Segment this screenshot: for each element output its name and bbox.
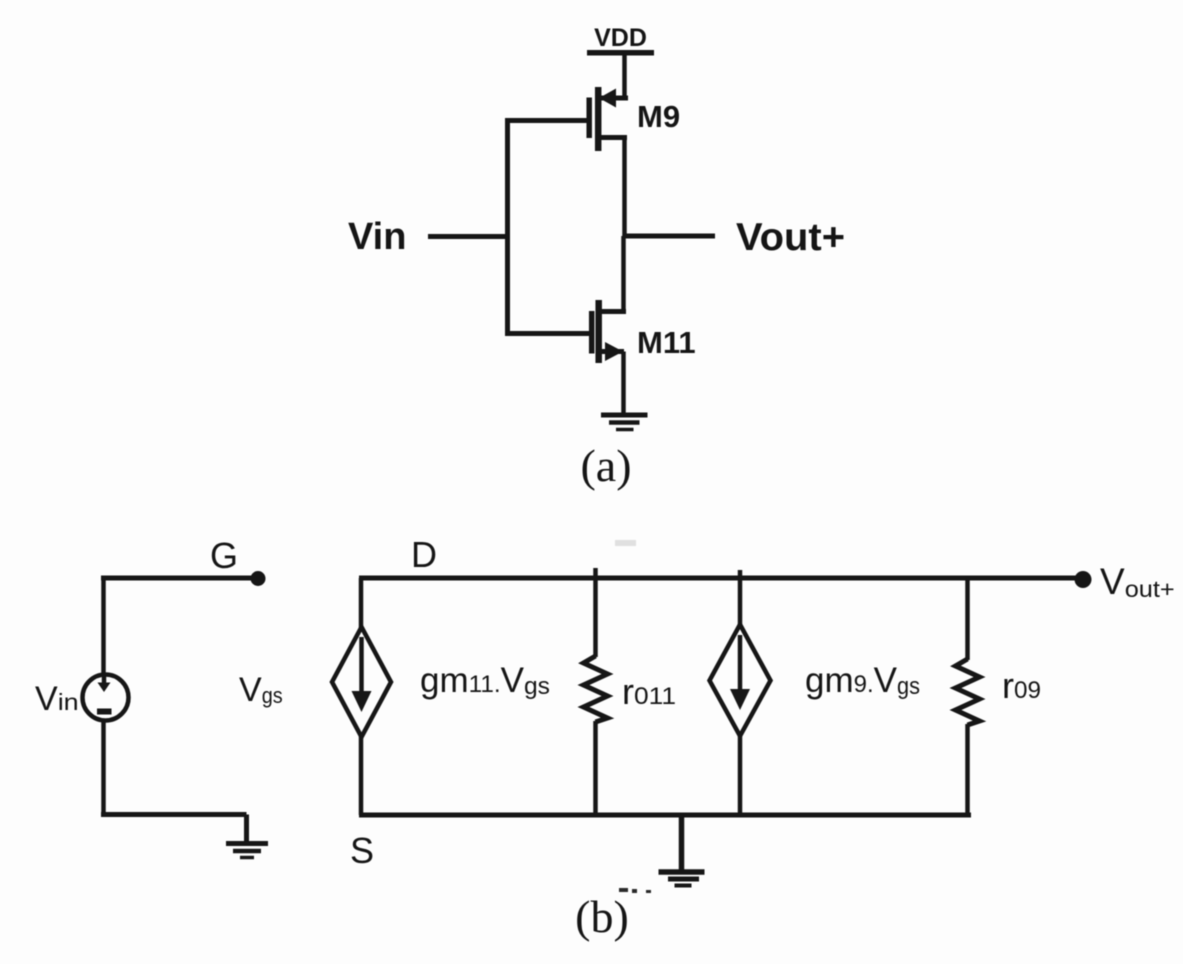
transistor M11 gate wire — [508, 331, 590, 336]
wire r011 top — [593, 578, 598, 657]
resistor r09 zigzag — [956, 659, 980, 725]
ground (b) bar 3 — [675, 884, 692, 888]
svg-text:gm9.Vgs: gm9.Vgs — [805, 661, 920, 700]
current source gm11 diamond — [332, 627, 391, 737]
transistor M9 gate bar — [586, 98, 592, 139]
resistor r011 zigzag — [584, 656, 608, 722]
current source gm9 diamond — [710, 625, 771, 737]
wire Vin top horizontal — [101, 576, 252, 581]
transistor M11 gate bar — [589, 311, 595, 354]
transistor M11 source line — [602, 349, 625, 354]
svg-text:D: D — [411, 534, 437, 575]
transistor M11 drain line — [602, 309, 627, 314]
transistor M9 drain line — [601, 135, 627, 140]
transistor M9 source line — [601, 96, 628, 101]
ground (b left) bar 3 — [240, 856, 254, 860]
wire r011 bottom — [593, 721, 598, 815]
wire M11 source to ground — [621, 352, 626, 415]
svg-text:r011: r011 — [622, 671, 676, 712]
svg-text:(a): (a) — [580, 440, 631, 491]
ground (b) bar 2 — [668, 877, 699, 882]
svg-text:(b): (b) — [575, 891, 629, 942]
wire top rail D — [359, 576, 1080, 581]
wire Vin bottom vertical — [101, 719, 106, 815]
wire output to Vout+ — [625, 234, 716, 239]
ground (a) bar 3 — [616, 428, 634, 432]
transistor M9 gate wire — [505, 118, 587, 123]
wire Vin top vertical — [101, 578, 106, 676]
ground (a) bar 1 — [601, 413, 648, 418]
ground (b) bar 1 — [659, 869, 705, 875]
wire VDD to M9 source — [622, 55, 627, 98]
wire r09 top — [965, 578, 970, 660]
ground (b left) bar 1 — [226, 841, 268, 846]
wire gm9 branch top — [738, 578, 743, 626]
artifact dots — [619, 888, 651, 893]
wire bottom rail S — [359, 813, 971, 818]
svg-text:Vout+: Vout+ — [1100, 561, 1175, 602]
wire M9 drain down to output node — [622, 138, 627, 239]
artifact smudge — [615, 540, 636, 546]
node Vout+ dot — [1075, 571, 1092, 588]
svg-text:gm11.Vgs: gm11.Vgs — [420, 661, 550, 700]
source Vin circle — [83, 675, 129, 721]
ground (a) bar 2 — [609, 420, 640, 425]
wire gm9 stub above rail — [738, 570, 743, 578]
transistor M9 source arrow — [599, 89, 616, 108]
svg-text:G: G — [210, 535, 238, 576]
current source gm11 arrow — [359, 637, 364, 700]
current source gm9 arrow — [738, 635, 743, 698]
transistor M11 channel bar — [595, 300, 602, 363]
transistor M11 source arrow — [605, 342, 623, 361]
wire gm11 branch bottom — [359, 736, 364, 815]
svg-text:Vout+: Vout+ — [736, 216, 845, 259]
wire gate branch vertical — [505, 118, 510, 336]
svg-text:S: S — [350, 830, 374, 871]
svg-text:VDD: VDD — [594, 24, 647, 52]
wire gm11 branch top — [359, 578, 364, 628]
wire r011 stub above rail — [593, 568, 598, 578]
wire output node to M11 drain — [621, 236, 626, 312]
ground (b left) bar 2 — [233, 849, 261, 854]
svg-text:Vgs: Vgs — [239, 671, 283, 709]
wire Vin bottom horizontal — [101, 812, 247, 817]
wire r09 bottom — [965, 724, 970, 815]
svg-text:r09: r09 — [1002, 665, 1041, 706]
wire Vin input — [428, 234, 508, 239]
source Vin minus mark — [97, 709, 112, 715]
svg-text:Vin: Vin — [348, 216, 406, 258]
svg-text:Vin: Vin — [35, 680, 79, 718]
svg-text:M11: M11 — [637, 325, 696, 360]
source Vin plus arrow — [102, 676, 107, 687]
VDD supply bar — [587, 50, 654, 56]
transistor M9 channel bar — [595, 87, 602, 151]
wire ground stub (b left) — [244, 815, 249, 843]
wire ground stub (b) — [679, 815, 685, 870]
node G dot — [251, 571, 266, 586]
wire gm9 branch bottom — [738, 735, 743, 815]
svg-text:M9: M9 — [637, 99, 680, 134]
